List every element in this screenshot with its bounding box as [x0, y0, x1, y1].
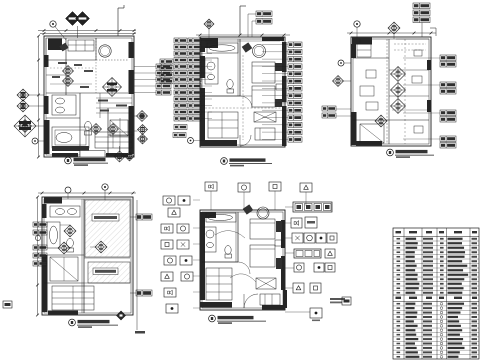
plan C top dimension line: [347, 32, 436, 34]
plan A table circle: [99, 45, 111, 57]
plan A rotated chair glyph: [59, 43, 68, 52]
plan C top-right label leader: [421, 23, 423, 38]
plan B left label boxes: [174, 38, 187, 43]
plan E right equipment row 5 single: [294, 263, 304, 272]
plan A wall fill top-left corner: [48, 39, 62, 51]
plan D left dimension line: [37, 197, 39, 315]
plan C top-left closet: [357, 44, 371, 57]
plan C lamp diamond 3: [391, 99, 406, 114]
plan A interior partition horizontal 4: [108, 134, 134, 136]
plan D diamond tag 2: [58, 242, 70, 254]
plan C interior horizontal lines: [353, 57, 389, 59]
plan D hatch area label: [92, 214, 119, 221]
plan C bottom-left shower room: [360, 124, 384, 143]
plan E bathroom partition vertical: [237, 212, 239, 262]
plan B top-right label leaders: [248, 13, 256, 15]
plan E bathroom door swing: [238, 262, 250, 274]
plan D top grid bubble: [102, 184, 108, 190]
plan A interior partition horizontal 2: [46, 92, 128, 94]
plan E right equipment row 5 pair: [314, 263, 324, 272]
plan B outer wall: [200, 37, 285, 147]
plan A caption: [65, 157, 72, 164]
plan B top-right label box 1: [256, 11, 272, 17]
plan A interior vertical leader 1: [119, 118, 121, 152]
plan A interior partition vertical 2: [95, 38, 97, 60]
plan A interior clutter lines: [50, 67, 96, 69]
plan A right label leaders: [134, 66, 156, 68]
plan A caption-side leader: [119, 146, 121, 151]
plan D left label boxes: [33, 222, 47, 227]
plan D upper-left grid bubble: [65, 187, 71, 193]
plan E entry door arc: [244, 294, 258, 308]
plan D diamond tag 3: [95, 241, 107, 253]
plan E left equipment boxes row 1: [163, 196, 175, 205]
plan E closet: [206, 268, 232, 300]
plan A top dimension line: [38, 30, 136, 32]
plan E luggage bench: [256, 278, 276, 289]
plan D bathtub: [47, 222, 60, 248]
plan A wall fill bottom: [52, 153, 78, 157]
plan A interior partition vertical 3: [79, 93, 81, 155]
plan A wall fill left mid: [44, 96, 49, 114]
plan B bed 1 pillow: [275, 63, 282, 71]
legend table section 2 row contents: [397, 303, 401, 305]
plan C wall fill bottom-left: [356, 141, 382, 146]
plan A wall fill right column: [129, 42, 134, 58]
plan E right equipment group row 1: [293, 202, 332, 212]
plan E left equipment boxes row 2: [161, 224, 173, 233]
plan B luggage bench: [254, 112, 276, 122]
plan B wall fill right column: [282, 42, 287, 72]
plan D left circled tag: [35, 235, 40, 240]
plan D interior leader lines: [60, 224, 70, 226]
plan A interior diamond tag 3: [91, 124, 102, 135]
plan B wall fill top-right: [262, 37, 284, 41]
plan D caption-side dark diamond: [117, 311, 126, 320]
plan D diamond tag 1: [64, 225, 76, 237]
plan A left grid bubble: [32, 138, 38, 144]
plan A wall fill left lower: [44, 120, 50, 154]
plan E bed 1: [250, 219, 275, 239]
plan E right equipment leaders: [285, 206, 293, 208]
plan A caption-side diamond bubble 1: [114, 151, 125, 162]
plan A right-side dense shelving lines: [96, 97, 132, 99]
plan B bathroom partition vertical: [239, 39, 241, 96]
plan A interior partition horizontal 1: [46, 59, 96, 61]
plan D top dimension line: [38, 192, 136, 194]
plan E nightstand: [275, 240, 282, 246]
plan A bathtub lower-left: [52, 127, 89, 148]
legend table section 2 grid: [393, 305, 479, 307]
plan A leader from top diamonds: [77, 26, 79, 38]
plan D wall fill left upper: [42, 204, 47, 218]
plan E wall fill top-left corner: [205, 212, 216, 218]
plan A cabinet top: [68, 40, 94, 51]
plan E rotated chair glyph: [243, 204, 254, 214]
plan E right equipment row 2 box: [291, 218, 302, 228]
plan A interior vertical leader 2: [128, 108, 130, 152]
plan C interior partition vertical: [388, 39, 390, 144]
plan D vanity counter: [50, 206, 80, 217]
plan A misc interior lines: [46, 74, 66, 76]
plan E misc wiring arcs: [215, 231, 245, 238]
plan C right label box pairs: [440, 55, 456, 61]
plan E bathroom partition horizontal: [202, 261, 238, 263]
plan D outer wall: [42, 197, 133, 315]
plan B wall fill left column: [200, 38, 205, 52]
plan E small note text top-right: [330, 298, 345, 300]
plan A toilet: [85, 121, 92, 130]
plan D right label box 1: [136, 214, 152, 220]
plan C caption: [387, 149, 394, 156]
legend table section 1 row contents: [397, 238, 401, 240]
plan A interior diamond tag 4: [108, 124, 119, 135]
plan D hatch small label: [93, 268, 118, 275]
plan A left large diamond tag: [14, 115, 36, 137]
plan E bed 2 pillow: [276, 258, 282, 269]
plan B right label boxes: [288, 42, 302, 47]
plan C lamp diamond 2: [391, 83, 406, 98]
plan E right single equipment box bottom: [310, 308, 322, 318]
plan B right label leaders: [262, 44, 288, 46]
plan A top dark diamond pair: [66, 12, 80, 26]
plan B left lower single boxes: [174, 125, 187, 130]
plan D wall fill top-left corner: [44, 198, 62, 204]
plan A right diamond tag 3: [138, 134, 148, 144]
plan E left equipment box row 6: [164, 288, 176, 297]
plan E toilet: [225, 246, 231, 255]
plan B table circle: [253, 45, 266, 58]
plan C lamp diamond 4: [375, 115, 387, 127]
plan E table circle: [257, 207, 269, 219]
plan B bottom-right furniture: [255, 128, 275, 140]
plan C ceiling grid lines: [359, 39, 361, 44]
isolated small tag box left of legend: [342, 297, 351, 305]
plan B top dimension line: [196, 34, 290, 36]
plan B toilet: [227, 80, 233, 89]
plan E wall fill right column: [281, 220, 285, 248]
plan A left diamond tag small 1: [17, 89, 29, 101]
plan D wall fill bottom: [48, 311, 78, 315]
plan C lamp diamond 1: [391, 67, 406, 82]
plan B left extra label boxes: [160, 59, 173, 64]
plan A right diamond tag 1: [137, 111, 148, 122]
plan D interior horizontal lines: [44, 254, 84, 256]
legend table section 2 header row: [393, 294, 479, 296]
plan A top-left grid bubble: [50, 21, 56, 27]
plan C wall fill left lower: [351, 112, 357, 145]
plan E bathtub: [206, 213, 236, 222]
plan E wall fill bottom-right: [262, 305, 285, 310]
plan A wall fill left upper: [44, 55, 49, 67]
plan D hatch area small: [88, 262, 130, 283]
plan C top grid bubble: [354, 21, 360, 27]
plan D right label leaders: [130, 216, 136, 218]
plan A tub apron dark band: [52, 146, 89, 151]
plan A shower enclosure: [110, 120, 128, 136]
plan A interior partition horizontal 3: [46, 117, 80, 119]
plan E wall fill left column: [200, 212, 205, 300]
plan C left grid bubble: [338, 60, 344, 66]
plan E left equipment boxes row 4: [164, 256, 176, 265]
plan C wall fill right small: [427, 60, 431, 70]
plan E left equipment box single: [168, 208, 180, 217]
plan E right equipment row 4 single: [325, 249, 335, 258]
legend table section 1 grid: [393, 240, 479, 242]
plan A right diamond leaders: [134, 115, 137, 117]
plan C wall fill top-left corner: [352, 38, 372, 45]
plan A interior diamond tag 2: [63, 76, 74, 87]
plan A left dimension line: [38, 36, 40, 157]
plan E right equipment row 4 group: [294, 249, 321, 258]
plan E bed 2: [250, 245, 275, 267]
plan C top-right elbow leader: [430, 27, 436, 29]
plan B bed 1: [252, 62, 275, 83]
plan A caption-side diamond bubble 2: [125, 152, 134, 161]
plan A outer wall: [44, 36, 134, 157]
plan B riser leader: [239, 6, 241, 35]
plan A right diamond tag 2: [138, 125, 148, 135]
plan E top equipment boxes: [205, 182, 217, 191]
plan A lower-right closet shelving: [95, 132, 132, 148]
plan B bathroom partition horizontal: [202, 95, 240, 97]
plan B left label leaders: [201, 40, 212, 42]
plan E right equipment row 3 boxes: [292, 233, 303, 243]
plan A interior diamond tag 1: [63, 66, 74, 77]
plan C small ceiling boxes: [366, 70, 376, 78]
plan D caption: [69, 319, 76, 326]
plan A door recess below bottom wall: [80, 151, 105, 158]
plan D hatch area large (AS8A11 carpet): [85, 200, 130, 257]
legend table section 1 header row: [393, 236, 479, 238]
plan B top diamond tag: [204, 19, 214, 29]
plan E outer wall: [200, 210, 285, 310]
plan D right vertical leader: [136, 200, 138, 330]
plan A left leader lines: [29, 94, 44, 96]
plan C left diamond tag: [333, 76, 344, 87]
plan B top-right label box 2: [256, 19, 272, 25]
plan E left equipment leaders: [193, 199, 200, 201]
plan A interior clutter smears: [58, 62, 67, 64]
plan A interior large diamond tag: [103, 78, 122, 97]
plan B left lower circle bubble: [188, 138, 194, 144]
plan C top diamond bubble: [388, 22, 400, 34]
plan E bottom-right cabinet: [260, 294, 280, 305]
plan D closet: [52, 286, 94, 310]
plan E caption: [209, 315, 216, 322]
plan E top equipment leaders: [210, 191, 212, 210]
plan B wall fill top-left corner: [205, 38, 218, 48]
plan C top-right label boxes: [413, 3, 430, 9]
plan B caption: [221, 158, 228, 165]
plan A left diamond tag small 2: [17, 100, 29, 112]
plan D shower: [50, 257, 78, 281]
plan B bed 2 pillow: [275, 99, 282, 107]
plan B nightstand: [276, 84, 283, 90]
plan E left equipment box row 7: [166, 304, 178, 313]
plan E wall fill bottom-left band: [200, 302, 232, 308]
plan A leader from grid bubble: [55, 27, 66, 41]
plan E left equipment boxes row 3: [161, 240, 173, 249]
plan C wall fill left upper: [351, 44, 356, 58]
plan D toilet: [67, 238, 74, 247]
plan E left equipment boxes row 5: [161, 272, 173, 281]
plan D interior partition vertical: [83, 199, 85, 313]
plan D far-left tiny box: [3, 301, 12, 308]
plan A right label box column: [156, 64, 171, 69]
plan E right equipment row 6: [293, 283, 304, 293]
plan C left label boxes: [322, 106, 336, 111]
plan B vanity counter: [205, 58, 218, 84]
plan E vanity counter: [204, 227, 216, 252]
plan A interior partition vertical 4: [107, 108, 109, 155]
plan B rotated chair glyph: [242, 42, 253, 52]
plan A riser leader top-right: [117, 8, 119, 36]
plan A interior partition vertical 1: [65, 38, 67, 95]
plan B bathtub: [207, 43, 238, 53]
plan C outer wall: [351, 37, 431, 146]
plan A vanity counter with basins: [52, 95, 76, 115]
plan B misc pipe lines: [205, 40, 280, 42]
plan B bathroom door swing: [240, 95, 252, 97]
plan D wall fill left lower: [42, 255, 48, 312]
plan E bed 1 pillow: [276, 221, 282, 232]
legend table outer border: [393, 228, 479, 359]
plan B closet: [208, 112, 238, 138]
plan B wall fill bottom-left: [205, 140, 237, 146]
plan E right equipment row 2 plain box: [305, 217, 317, 228]
plan C right label leaders: [403, 57, 440, 59]
plan B bed 2: [252, 86, 275, 107]
plan C left leaders: [344, 62, 351, 64]
plan B entry door arc: [240, 135, 251, 146]
plan D right label box 2: [136, 290, 152, 296]
plan D left label leaders: [42, 224, 47, 226]
